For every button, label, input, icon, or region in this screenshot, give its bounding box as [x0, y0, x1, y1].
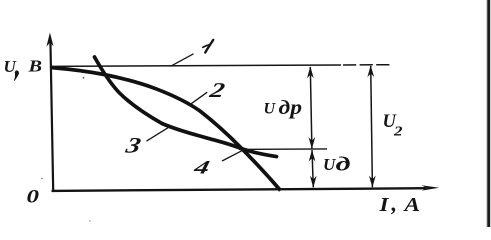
svg-text:А: А	[402, 194, 420, 216]
dimension Ud vertical line	[312, 150, 313, 187]
dimension U2 vertical line	[371, 66, 373, 187]
label 1	[205, 40, 213, 53]
x-axis arrowhead	[422, 185, 440, 190]
dust specks	[83, 77, 85, 79]
Udr up arrowhead	[307, 66, 314, 78]
line 1 dashed right part	[343, 64, 392, 66]
leader for 4	[222, 151, 242, 161]
svg-text:,: ,	[391, 191, 398, 216]
y-axis U,B	[50, 40, 53, 191]
U2 up arrowhead	[367, 65, 374, 77]
svg-text:В: В	[27, 57, 42, 76]
svg-text:2: 2	[393, 123, 403, 138]
node: Ud reference line	[239, 148, 327, 151]
line 1 open-circuit level	[52, 65, 342, 66]
Ud down arrowhead	[310, 176, 317, 188]
svg-text:U: U	[323, 155, 336, 174]
curve 3 steep-then-flat characteristic	[95, 57, 277, 157]
svg-text:д: д	[336, 154, 351, 176]
Udr down arrowhead	[309, 137, 316, 149]
page edge line at right	[487, 0, 490, 227]
y-axis arrowhead	[47, 33, 54, 47]
U2 down arrowhead	[369, 176, 376, 188]
svg-text:U: U	[4, 57, 17, 76]
svg-text:0: 0	[27, 187, 40, 207]
svg-text:U: U	[264, 101, 277, 118]
leader for 1	[171, 54, 194, 67]
leader for 2	[189, 92, 208, 106]
x-axis I,A	[52, 188, 427, 191]
curve 2 steepening characteristic	[52, 68, 281, 191]
svg-text:I: I	[378, 194, 390, 216]
svg-text:др: др	[279, 98, 303, 119]
dimension Udr vertical line	[310, 67, 312, 149]
Ud up arrowhead	[309, 150, 316, 162]
leader for 3	[147, 127, 169, 141]
